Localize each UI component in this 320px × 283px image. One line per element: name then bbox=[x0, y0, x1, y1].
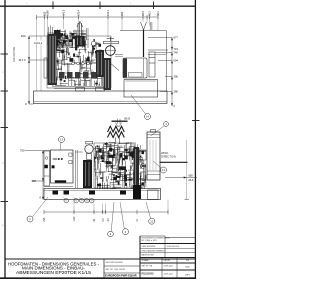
svg-text:P81132002: P81132002 bbox=[142, 273, 155, 276]
svg-text:DATUM .: DATUM . bbox=[164, 259, 172, 262]
svg-text:694: 694 bbox=[174, 59, 179, 63]
balloon 13 bbox=[59, 137, 65, 143]
fan & belt area bbox=[134, 147, 147, 187]
svg-text:24-09-2002: 24-09-2002 bbox=[164, 274, 173, 276]
balloon 4 bbox=[164, 122, 169, 127]
frame tick left 2 bbox=[1, 90, 9, 92]
radiator (bottom view) bbox=[147, 130, 160, 181]
right dimension line (top view) bbox=[148, 38, 172, 107]
engine bottom view block texture bbox=[83, 142, 146, 189]
middle column dividers bbox=[103, 259, 105, 278]
label 1241.2 backing bbox=[34, 41, 46, 45]
right dimension labels bbox=[174, 36, 179, 108]
balloon lower left bbox=[27, 216, 33, 222]
right block outer bbox=[139, 236, 141, 278]
svg-text:MATEN IN MM: MATEN IN MM bbox=[142, 254, 154, 257]
page frame left border bbox=[4, 0, 6, 279]
bottom dimension line bbox=[44, 210, 168, 214]
bottom dim labels rotated bbox=[44, 216, 139, 222]
page frame right border bbox=[194, 0, 196, 279]
top dimension chain line bbox=[37, 15, 159, 19]
radiator side column bbox=[149, 52, 155, 77]
engine detail texture (front view) bbox=[94, 142, 146, 189]
engine front upper texture bbox=[95, 146, 135, 160]
control cabinet bbox=[51, 150, 74, 183]
svg-text:350: 350 bbox=[32, 179, 37, 183]
engine mount bracket lines bbox=[76, 150, 84, 188]
svg-text:677: 677 bbox=[174, 36, 179, 40]
frame tick left 4 bbox=[1, 201, 9, 203]
bottom dim extension lines bbox=[74, 200, 168, 215]
cabinet base lines bbox=[44, 186, 73, 188]
svg-text:23.6: 23.6 bbox=[189, 179, 194, 182]
svg-text:575.4: 575.4 bbox=[77, 9, 80, 16]
svg-text:GET. MT GA: GET. MT GA bbox=[142, 265, 153, 268]
top view: skid base bbox=[34, 91, 168, 104]
svg-text:24-09-2002 B.V.: 24-09-2002 B.V. bbox=[167, 246, 180, 248]
top view engine block texture bbox=[47, 29, 111, 88]
bell housing bbox=[96, 50, 123, 77]
svg-text:95.2: 95.2 bbox=[148, 10, 151, 15]
frame tick top 3 bbox=[153, 2, 155, 10]
oil pan bbox=[52, 87, 108, 89]
fuel tank bbox=[124, 80, 158, 98]
svg-text:TENZIJ ANDERS VERMELD: TENZIJ ANDERS VERMELD bbox=[142, 250, 166, 253]
svg-text:WIND: WIND bbox=[161, 151, 168, 155]
bottom balloons row bbox=[64, 199, 94, 203]
svg-text:EUROPGEN PWR EQUIP.: EUROPGEN PWR EQUIP. bbox=[105, 274, 137, 278]
radiator support leg bbox=[148, 190, 159, 200]
svg-text:24-09-2002: 24-09-2002 bbox=[164, 266, 173, 268]
balloon lower mid bbox=[108, 231, 114, 237]
svg-text:120.4: 120.4 bbox=[107, 9, 110, 16]
exhaust riser pipes bbox=[73, 21, 87, 37]
svg-text:910: 910 bbox=[21, 34, 26, 38]
exhaust funnel small bbox=[116, 123, 122, 127]
clearance dimension 600 bbox=[165, 177, 197, 179]
leader from tank to balloon 14 bbox=[131, 95, 146, 115]
top extension lines bbox=[37, 17, 159, 91]
water pump circle bbox=[87, 28, 96, 46]
balloon 14 lower bbox=[161, 167, 167, 173]
svg-text:283: 283 bbox=[121, 11, 124, 16]
title block main divider bbox=[5, 258, 195, 260]
title text area bbox=[8, 262, 100, 275]
fuel pump circles row bbox=[58, 62, 98, 65]
engine upper piping texture bbox=[53, 29, 86, 48]
frame tick left 3 bbox=[1, 127, 9, 129]
engine detail texture (top view) bbox=[49, 38, 103, 86]
radiator top gray band bbox=[148, 49, 168, 51]
svg-text:280: 280 bbox=[174, 90, 179, 94]
svg-text:343.5: 343.5 bbox=[62, 9, 65, 16]
svg-text:SCHAAL ..: SCHAAL .. bbox=[142, 259, 151, 262]
injection pipes bbox=[55, 29, 73, 48]
svg-text:740: 740 bbox=[174, 51, 179, 55]
right block texts bbox=[142, 238, 190, 276]
page frame top border bbox=[0, 5, 196, 7]
exhaust funnel bbox=[141, 22, 152, 57]
svg-text:390: 390 bbox=[174, 75, 179, 79]
flywheel circle bbox=[104, 45, 116, 57]
bellows zigzag bbox=[108, 126, 125, 137]
svg-text:FAN CENTRE: FAN CENTRE bbox=[13, 46, 16, 62]
exhaust pipes down bbox=[115, 138, 117, 145]
engine left end details bbox=[44, 34, 57, 85]
alternator bbox=[123, 58, 147, 78]
left dimension (bottom view) bbox=[25, 151, 50, 200]
svg-text:1241.2: 1241.2 bbox=[34, 41, 43, 45]
bottom view base skid bbox=[44, 189, 161, 200]
cylinder row dark rects bbox=[59, 72, 97, 79]
cabinet side panel bbox=[44, 151, 50, 186]
left dimension labels bbox=[19, 34, 27, 106]
svg-text:600: 600 bbox=[189, 175, 194, 178]
frame tick top 1 bbox=[52, 2, 54, 10]
svg-text:417.3: 417.3 bbox=[19, 58, 26, 62]
left dimension line (top view) bbox=[29, 36, 58, 104]
svg-text:719: 719 bbox=[174, 47, 179, 51]
engine feet bbox=[53, 191, 59, 195]
svg-text:F10: F10 bbox=[186, 260, 189, 262]
exhaust manifold body bbox=[75, 36, 85, 47]
frame tick top 2 bbox=[99, 2, 101, 10]
svg-text:1102: 1102 bbox=[74, 216, 76, 222]
svg-text:Ø142: Ø142 bbox=[124, 117, 131, 120]
svg-text:GET. MT PB1 132002: GET. MT PB1 132002 bbox=[106, 269, 125, 271]
top dimension labels (rotated) bbox=[43, 9, 159, 16]
svg-text:OMSCHRIJVING: OMSCHRIJVING bbox=[142, 246, 156, 248]
svg-text:ABMESSUNGEN EP20TDE K1/L5: ABMESSUNGEN EP20TDE K1/L5 bbox=[16, 270, 92, 275]
balloon lower right 1 bbox=[123, 229, 129, 235]
exhaust dim thick line bbox=[112, 120, 128, 122]
rocker cover dark blob bbox=[54, 30, 61, 39]
heat exchanger bar bbox=[104, 37, 119, 44]
balloon lower right 2 bbox=[149, 218, 155, 224]
svg-text:NO. 12844 ▲ NTS: NO. 12844 ▲ NTS bbox=[142, 239, 158, 242]
vibration mounts bbox=[76, 88, 85, 92]
svg-text:1098: 1098 bbox=[46, 10, 49, 16]
svg-text:750: 750 bbox=[20, 149, 25, 153]
flywheel housing dark mass bbox=[104, 58, 112, 90]
svg-text:DIRECTION: DIRECTION bbox=[161, 154, 176, 158]
wind arrow bbox=[160, 161, 188, 163]
svg-text:GECONTROLEERD .: GECONTROLEERD . bbox=[106, 262, 125, 264]
canopy outline right bbox=[120, 31, 167, 92]
valve train pipes left bbox=[47, 26, 56, 39]
frame tick right bbox=[192, 120, 200, 122]
balloon 14 bbox=[145, 114, 151, 120]
engine bottom view: air cleaner bbox=[85, 141, 93, 159]
page frame bottom border bbox=[0, 277, 196, 279]
svg-text:50.5: 50.5 bbox=[142, 10, 145, 15]
frame tick left 1 bbox=[1, 53, 9, 55]
svg-text:30.2: 30.2 bbox=[157, 10, 160, 15]
grid reference letters bbox=[2, 3, 132, 227]
wind direction note bbox=[161, 151, 176, 158]
